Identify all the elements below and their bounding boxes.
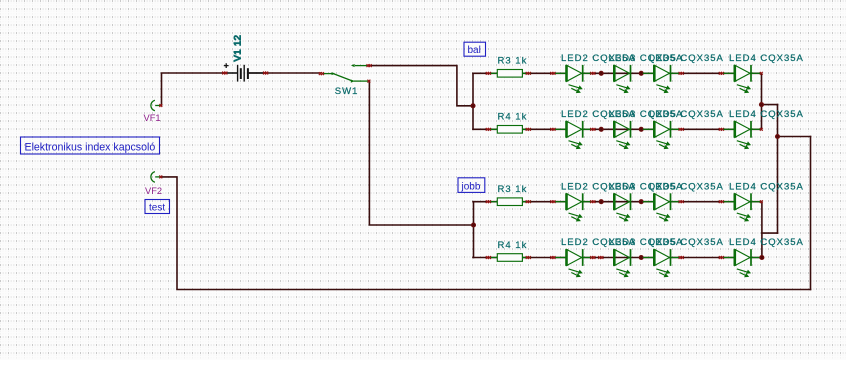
wire node BAL vertical (row1/row2 split) [472, 73, 474, 129]
annotation: test [145, 200, 170, 214]
svg-text:LED5 CQX35A: LED5 CQX35A [649, 181, 724, 192]
wire SW1 throw B to node JOBB [369, 81, 471, 225]
pin connection mark VF2 pin [159, 175, 162, 178]
wire terminal VF2 to bottom return rail [161, 177, 811, 290]
pin connection mark LED2 cathode pin (bal row 2) [590, 128, 595, 131]
node jobb row 1 LED2/LED3 (junction) [599, 199, 604, 204]
pin connection mark LED5 cathode pin (bal row 1) [679, 72, 684, 75]
pin connection mark LED4 anode pin (jobb row 2) [719, 256, 724, 259]
node bal row 1 LED3/LED5 (junction) [639, 71, 644, 76]
annotation: jobb [458, 178, 485, 193]
pin connection mark LED2 anode pin (jobb row 1) [550, 200, 555, 203]
pin connection mark LED2 cathode pin (jobb row 2) [590, 256, 595, 259]
pin connection mark R4 left pin (jobb row 2) [486, 256, 491, 259]
pin connection mark LED4 anode pin (jobb row 1) [719, 200, 724, 203]
svg-text:LED4 CQX35A: LED4 CQX35A [729, 109, 804, 120]
terminal VF2 [151, 172, 161, 183]
pin connection mark LED4 cathode pin (bal row 1) [760, 72, 763, 75]
node jobb row 1 LED3/LED5 (junction) [639, 199, 644, 204]
svg-text:LED4 CQX35A: LED4 CQX35A [729, 237, 804, 248]
LED LED2 (jobb row 1) (CQX35A) [555, 193, 592, 221]
pin connection mark SW1 throw A pin [367, 64, 372, 67]
pin connection mark R4 right pin (jobb row 2) [526, 256, 531, 259]
terminal VF1 [151, 100, 161, 111]
svg-text:R3 1k: R3 1k [498, 184, 528, 195]
svg-text:V1 12: V1 12 [233, 35, 244, 62]
node bal row 2 LED2/LED3 (junction) [599, 127, 604, 132]
resistor R4 (bal row 2) [489, 126, 531, 134]
LED LED3 (bal row 2) (CQX35A) [614, 121, 630, 149]
wire return column to far right rail [778, 136, 811, 138]
svg-text:LED4 CQX35A: LED4 CQX35A [729, 53, 804, 64]
wire row jobb row 2 backbone [473, 257, 762, 259]
wire battery positive to terminal VF1 [162, 73, 225, 106]
pin connection mark LED2 anode pin (jobb row 2) [550, 256, 555, 259]
svg-text:test: test [149, 203, 165, 214]
pin connection mark LED2 cathode pin (jobb row 1) [590, 200, 595, 203]
pin connection mark LED4 cathode pin (bal row 2) [760, 128, 763, 131]
pin connection mark SW1 common pin [319, 72, 324, 75]
pin connection mark R3 right pin (bal row 1) [526, 72, 531, 75]
LED LED4 (bal row 2) (CQX35A) [723, 121, 760, 149]
svg-text:LED5 CQX35A: LED5 CQX35A [649, 237, 724, 248]
LED LED3 (bal row 1) (CQX35A) [614, 65, 630, 93]
pin connection mark LED5 cathode pin (bal row 2) [679, 128, 684, 131]
pin connection mark battery negative pin [263, 72, 268, 75]
LED LED5 (bal row 1) (CQX35A) [643, 65, 680, 93]
LED LED4 (jobb row 1) (CQX35A) [723, 193, 760, 221]
wire right cathode bus jobb (row3-row4) [761, 202, 763, 258]
node BAL split (junction) [470, 103, 475, 108]
pin connection mark R3 left pin (bal row 1) [486, 72, 491, 75]
resistor R3 (jobb row 1) [489, 198, 531, 206]
resistor R3 (bal row 1) [489, 70, 531, 78]
node jobb row 2 LED3/LED5 (junction) [639, 255, 644, 260]
wire row bal row 1 backbone [473, 72, 762, 74]
LED LED3 (jobb row 1) (CQX35A) [614, 193, 630, 221]
pin connection mark battery positive pin [222, 72, 227, 75]
pin connection mark VF1 pin [159, 104, 162, 107]
pin connection mark LED5 cathode pin (jobb row 2) [679, 256, 684, 259]
resistor R4 (jobb row 2) [489, 254, 531, 262]
wire bal bus to return column [762, 104, 778, 106]
pin connection mark LED4 cathode pin (jobb row 1) [760, 200, 763, 203]
pin connection mark SW1 throw B pin [367, 80, 370, 83]
pin connection mark LED4 anode pin (bal row 1) [719, 72, 724, 75]
node jobb row 2 cathode (junction) [759, 255, 764, 260]
wire node JOBB vertical (row3/row4 split) [473, 202, 475, 258]
pin connection mark LED4 anode pin (bal row 2) [719, 128, 724, 131]
pin connection mark LED3 anode pin (jobb row 2) [598, 256, 603, 259]
wire far right rail vertical [810, 137, 812, 290]
svg-text:bal: bal [468, 45, 481, 56]
LED LED2 (bal row 1) (CQX35A) [555, 65, 592, 93]
wire row bal row 2 backbone [473, 128, 762, 130]
wire battery negative to switch SW1 common [249, 72, 321, 74]
node JOBB split (junction) [471, 222, 476, 227]
pin connection mark R4 right pin (bal row 2) [526, 128, 531, 131]
LED LED4 (bal row 1) (CQX35A) [723, 65, 760, 93]
LED LED5 (bal row 2) (CQX35A) [643, 121, 680, 149]
svg-text:LED4 CQX35A: LED4 CQX35A [729, 181, 804, 192]
pin connection mark LED4 cathode pin (jobb row 2) [760, 256, 763, 259]
svg-text:R4 1k: R4 1k [498, 112, 528, 123]
svg-text:R3 1k: R3 1k [498, 56, 528, 67]
pin connection mark LED2 cathode pin (bal row 1) [590, 72, 595, 75]
LED LED2 (bal row 2) (CQX35A) [555, 121, 592, 149]
node return column tap (junction) [775, 134, 780, 139]
wire right cathode bus bal (row1-row2) [761, 73, 763, 129]
node bal row 2 LED3/LED5 (junction) [639, 127, 644, 132]
pin connection mark R3 right pin (jobb row 1) [526, 200, 531, 203]
svg-text:SW1: SW1 [335, 86, 359, 97]
wire SW1 throw A to node BAL [370, 66, 472, 106]
pin connection mark LED2 anode pin (bal row 1) [550, 72, 555, 75]
LED LED4 (jobb row 2) (CQX35A) [723, 249, 760, 277]
node bal row 1 LED2/LED3 (junction) [599, 71, 604, 76]
LED LED3 (jobb row 2) (CQX35A) [614, 249, 630, 277]
pin connection mark LED5 cathode pin (jobb row 1) [679, 200, 684, 203]
svg-text:Elektronikus index kapcsoló: Elektronikus index kapcsoló [25, 141, 156, 153]
switch SW1 (SPDT) [323, 64, 369, 83]
svg-text:LED5 CQX35A: LED5 CQX35A [649, 53, 724, 64]
battery V1 12 [224, 63, 266, 81]
pin connection mark LED2 anode pin (bal row 2) [550, 128, 555, 131]
LED LED5 (jobb row 2) (CQX35A) [643, 249, 680, 277]
LED LED5 (jobb row 1) (CQX35A) [643, 193, 680, 221]
LED LED2 (jobb row 2) (CQX35A) [555, 249, 592, 277]
wire return column vertical [777, 105, 779, 234]
svg-text:VF1: VF1 [144, 113, 161, 123]
wire row jobb row 1 backbone [473, 201, 762, 203]
svg-text:R4 1k: R4 1k [498, 240, 528, 251]
svg-text:LED5 CQX35A: LED5 CQX35A [649, 109, 724, 120]
svg-text:VF2: VF2 [145, 186, 162, 196]
annotation: bal [464, 42, 486, 56]
wire jobb bus to return column [762, 232, 778, 234]
node bal cathode bus tap (junction) [759, 102, 764, 107]
pin connection mark R4 left pin (bal row 2) [486, 128, 491, 131]
title annotation: Elektronikus index kapcsolo [21, 137, 160, 154]
svg-text:jobb: jobb [461, 182, 481, 193]
pin connection mark R3 left pin (jobb row 1) [486, 200, 491, 203]
